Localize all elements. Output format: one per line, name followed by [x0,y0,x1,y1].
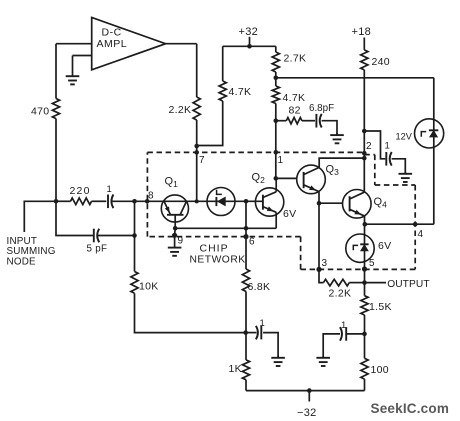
wire node 4 row [365,223,434,225]
resistor 82 [286,118,302,124]
transistor Q4 [343,190,372,219]
wire 2.2K to node 7 and Q1 collector [196,120,198,202]
svg-text:AMPL: AMPL [97,38,128,50]
capacitor node 2 [385,152,387,166]
resistor 240 [361,50,368,70]
node 8 boundary dot [145,199,150,204]
wire through 6V zener to node 5 [364,224,366,269]
svg-text:1: 1 [341,320,347,331]
svg-text:2.7K: 2.7K [284,52,307,64]
node 9 boundary dot [172,233,177,238]
svg-text:2.2K: 2.2K [169,104,192,116]
diode chip network [207,188,235,216]
resistor 10K [131,272,138,294]
resistor 220 [71,198,92,205]
resistor 2.7K [272,52,279,72]
wire down to 10K [134,201,136,271]
wire to 5pF [56,201,93,235]
wire 1.5K to 100 [364,315,366,358]
svg-text:1.5K: 1.5K [369,301,392,313]
capacitor mid [260,326,262,340]
junction 5pF [132,199,137,204]
node 6 boundary dot [243,234,248,239]
wire node 6 down to 6.8K [245,201,247,269]
wire Q3 collector to node 2 [319,158,364,167]
ground node2 cap [404,171,406,173]
junction node2 cap branch [362,129,367,134]
wire to 82 [276,120,287,122]
wire 4.7K to node 7 [197,101,223,146]
resistor 470 [52,99,59,119]
wire right edge down through 12V zener [433,78,435,224]
svg-text:470: 470 [31,105,49,117]
svg-text:D-C: D-C [102,26,122,38]
wire output lead [365,282,387,284]
junction -32 tick [307,388,312,393]
svg-text:1: 1 [107,184,113,195]
wire 4.7K right to 82 junction [275,104,277,121]
chip network dashed boundary [147,151,364,153]
junction Q1 collector [195,199,199,203]
svg-text:6.8pF: 6.8pF [309,103,334,114]
resistor 100 [361,358,368,379]
wire 10K to 6.8K junction [135,293,246,332]
wire input stub [24,201,56,232]
svg-text:6V: 6V [283,208,296,220]
wire 470 to summing node [55,119,57,202]
svg-text:Q2: Q2 [252,172,266,186]
svg-text:240: 240 [372,56,390,68]
capacitor 6.8pF [315,114,317,128]
junction Q4 emitter [363,222,368,227]
wire mid cap to ground [263,333,278,358]
ground output cap [322,356,324,358]
wire rail to right edge [276,77,434,79]
svg-text:SeekIC.com: SeekIC.com [371,401,450,416]
wire 6.8pF to ground [322,121,337,135]
svg-text:NODE: NODE [7,256,37,267]
svg-text:−32: −32 [297,407,317,419]
wire left column top [55,44,57,99]
junction 82 branch [274,118,279,123]
capacitor 5pF [93,229,95,243]
svg-text:100: 100 [371,364,389,376]
resistor 4.7K left [219,81,226,101]
diode internal mark [217,190,222,195]
svg-text:7: 7 [199,155,205,166]
svg-text:3: 3 [322,258,328,269]
svg-text:220: 220 [70,185,91,197]
svg-text:+18: +18 [352,26,372,38]
wire amp inverting input [73,55,92,57]
ground node 9 [174,235,176,247]
zener diode 12V [415,119,444,148]
svg-text:CHIP: CHIP [200,242,229,254]
svg-text:4.7K: 4.7K [229,86,252,98]
wire output down to 2.2K [196,44,198,97]
resistor 4.7K right [272,86,279,104]
junction Q1 base node9 row [173,226,178,231]
capacitor output filter [345,327,347,341]
zener diode 6V [346,234,374,262]
wire to cap [347,333,365,335]
svg-text:1: 1 [278,155,284,166]
junction 2.7K/4.7K [274,76,279,81]
svg-text:1K: 1K [229,363,242,375]
wire emitter row [175,227,276,229]
wire to Q3 base [276,177,297,179]
node 3 boundary dot [316,267,321,272]
wire to 220 [56,200,71,202]
junction +32 [247,44,252,49]
svg-text:OUTPUT: OUTPUT [387,279,429,290]
svg-text:6: 6 [249,236,255,247]
svg-text:2: 2 [366,141,372,152]
wire node3 to 2.2K [319,269,324,282]
svg-text:5: 5 [369,258,375,269]
wire node2 to cap [364,131,385,159]
wire -32 tick [308,391,310,402]
svg-text:12V: 12V [396,132,413,142]
junction diode / Q2 base / node 6 [244,199,249,204]
ground amp input [72,56,74,77]
resistor 1.5K [361,296,368,315]
svg-text:NETWORK: NETWORK [190,254,246,265]
wire to mid cap [246,332,257,334]
svg-text:82: 82 [289,105,301,117]
wire node 8 row to Q2 base [112,200,263,202]
svg-text:8: 8 [148,191,154,202]
wire 240 down to Q4 collector [363,70,365,192]
node 2 boundary dot [362,151,367,156]
svg-text:5 pF: 5 pF [87,243,108,254]
resistor 1K [242,360,249,380]
wire 100 to -32 rail [364,379,366,391]
svg-text:1: 1 [260,318,266,329]
wire cap to ground [392,159,406,174]
wire +18 tick [363,38,365,50]
transistor Q2 [255,188,283,216]
junction node 1 boundary [274,150,279,155]
capacitor 1pF input [107,195,109,209]
wire to Q4 base [319,202,343,204]
wire amp output [166,43,197,45]
node 5 boundary dot [362,266,367,271]
svg-text:Q3: Q3 [326,164,340,178]
junction node7 top [194,144,199,149]
resistor 2.2K output [324,279,350,286]
wire 5pF to 10K column [98,235,135,237]
wire 220 to cap [92,200,107,202]
wire Q3 emitter down to node 3 [318,192,320,270]
junction Q3 collector / node2 [362,156,367,161]
ground 6.8pF [336,133,338,135]
wire 2.2K to output node [349,282,364,284]
ground mid cap [277,356,279,358]
junction bottom-right cap [362,332,367,337]
junction output [362,280,367,285]
wire +32 rail [223,45,276,47]
svg-text:2.2K: 2.2K [329,288,352,300]
op-amp D-C AMPL [92,18,166,70]
wire +32 to 2.7K [275,46,277,52]
svg-text:1: 1 [385,140,391,151]
wire +32 tick [249,37,251,47]
svg-text:9: 9 [178,236,184,247]
node 7 boundary dot [194,150,199,155]
resistor 2.2K [193,97,200,120]
wire 82 to 6.8pF [302,120,315,122]
svg-text:4: 4 [418,229,424,240]
junction 5pF row [132,233,137,238]
wire -32 rail [246,390,365,392]
wire 1K to -32 rail [245,380,247,391]
transistor Q1 [161,195,188,222]
wire rail to 4.7K right [275,78,277,86]
junction emitter row / node6 [244,226,249,231]
svg-text:6V: 6V [378,240,391,252]
svg-text:6.8K: 6.8K [248,281,271,293]
wire 2.7K bottom [275,72,277,78]
svg-text:+32: +32 [239,26,259,38]
svg-text:4.7K: 4.7K [283,92,306,104]
wire 6.8K to 1K [245,292,247,360]
node 4 boundary dot [413,222,418,227]
junction Q3 emitter / Q4 base [317,201,322,206]
junction mid cap [243,330,248,335]
svg-text:Q4: Q4 [374,196,388,210]
transistor Q3 [297,165,326,194]
junction Q2 collector / Q3 base [274,176,279,181]
wire node 5 to 1.5K [364,269,366,296]
svg-text:Q1: Q1 [165,176,179,190]
junction summing node [54,199,59,204]
wire +32 to 4.7K [222,46,224,81]
resistor 6.8K [242,269,249,292]
wire amp noninverting input [56,43,92,45]
svg-text:10K: 10K [139,280,159,292]
wire cap to ground [323,334,340,358]
wire node 1 down to Q3 base [275,121,277,179]
